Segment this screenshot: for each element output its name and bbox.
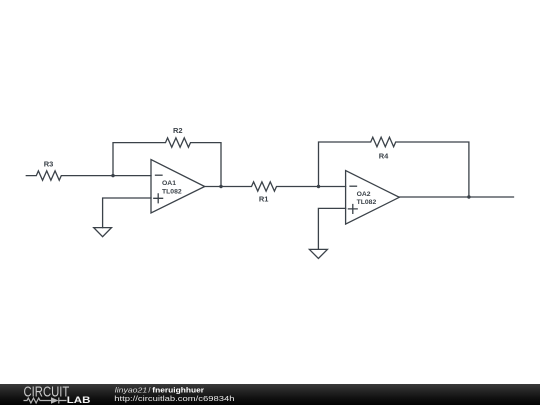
svg-text:R3: R3	[44, 160, 54, 169]
svg-text:CIRCUIT: CIRCUIT	[24, 384, 70, 400]
svg-text:R4: R4	[379, 152, 389, 161]
svg-text:OA2: OA2	[357, 191, 371, 198]
svg-text:R2: R2	[173, 126, 183, 135]
svg-text:TL082: TL082	[357, 199, 377, 206]
svg-text:TL082: TL082	[162, 188, 182, 195]
svg-text:http://circuitlab.com/c69834h: http://circuitlab.com/c69834h	[114, 394, 234, 403]
svg-text:LAB: LAB	[67, 395, 91, 405]
svg-text:R1: R1	[259, 195, 269, 204]
svg-text:OA1: OA1	[162, 180, 176, 187]
